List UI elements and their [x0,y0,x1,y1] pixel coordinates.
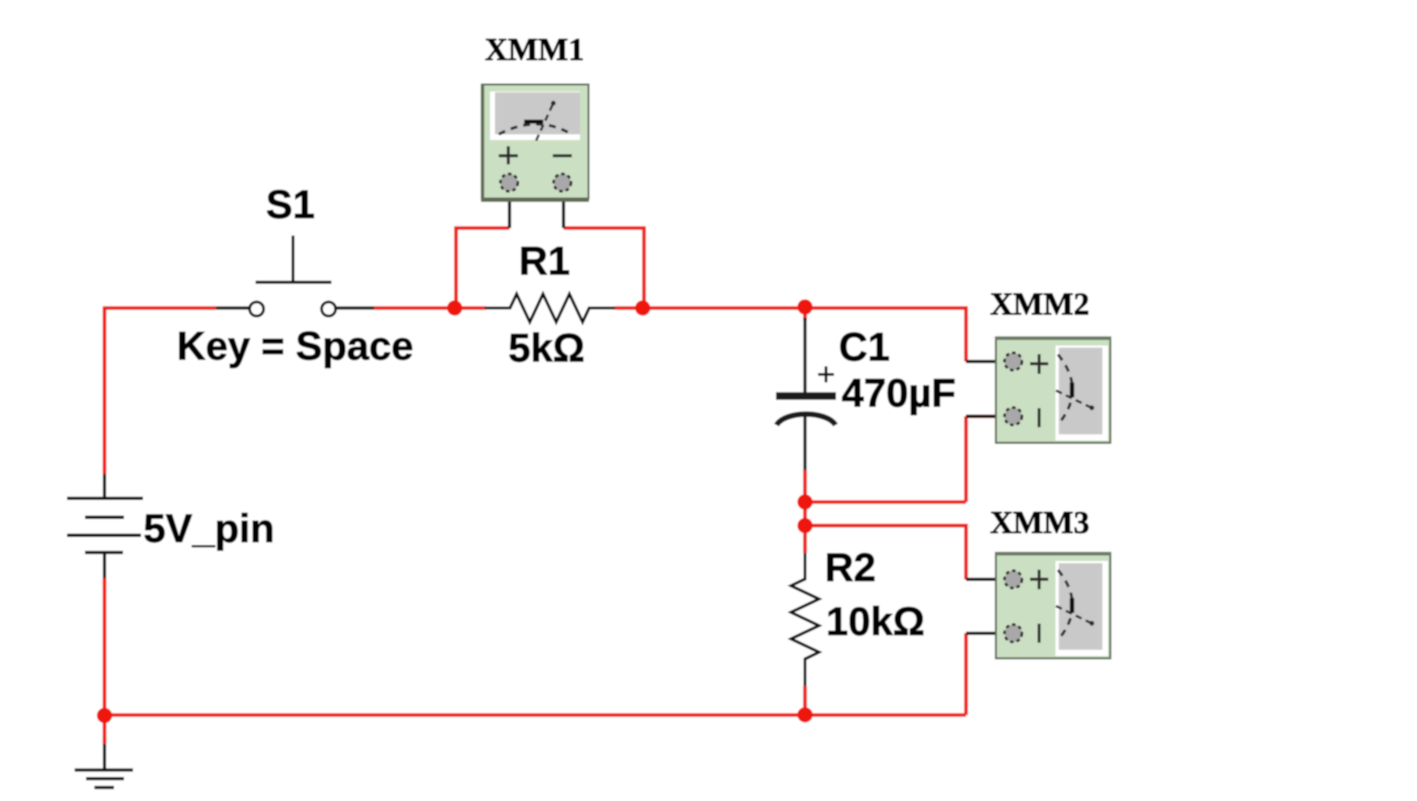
multimeter XMM1 [481,84,589,200]
svg-text:5V_pin: 5V_pin [143,507,274,551]
ground [75,744,133,788]
svg-text:S1: S1 [266,183,315,227]
multimeter XMM3 [996,553,1112,658]
wire: R2 top node to XMM3 plus [805,526,966,580]
wire: XMM2 minus black stub [966,415,1013,418]
wire: C1 black top [803,318,806,393]
svg-text:XMM2: XMM2 [990,286,1090,322]
wire: XMM1 left loop [456,228,510,308]
wire: XMM2 minus return down-left [805,416,1013,502]
capacitor C1 [776,366,836,425]
node: R1 left junction [447,300,462,315]
svg-text:XMM1: XMM1 [485,31,585,67]
wire: C1 bottom red to node [803,470,807,502]
wire: XMM3 plus black stub [966,578,1013,581]
wire: XMM3 minus black stub [966,632,1013,635]
node: R2 bottom junction [797,707,812,722]
wire: switch right to R1 left node [374,306,456,310]
switch S1 [216,236,374,317]
node: R2 top junction [797,518,812,533]
svg-text:Key = Space: Key = Space [177,325,414,369]
svg-text:XMM3: XMM3 [990,504,1090,540]
wire: XMM1 right loop [564,228,645,308]
svg-text:R1: R1 [519,240,570,284]
wire: R2 top red lead [803,526,807,553]
resistor R1 [485,294,615,322]
wire: top-left horizontal to switch left stub [103,306,216,310]
svg-text:C1: C1 [839,325,890,369]
wire: ground stub red [103,715,107,744]
wire: XMM1 minus black drop [562,183,565,228]
wire: left vertical from top-left corner down to battery top [103,307,107,475]
resistor R2 [791,553,819,686]
wire: R1 right node to C1 top node [643,306,805,310]
wire: node C1-bottom to node R2-top [803,502,807,526]
wire: R1 right red lead to node [615,306,643,310]
svg-text:R2: R2 [825,546,876,590]
svg-text:10kΩ: 10kΩ [826,600,925,644]
wire: R1 left node red lead [455,306,486,310]
wire: C1 top node to XMM2 plus corner [805,308,966,362]
wire: R2 bottom red lead [803,686,807,715]
wire: battery bottom to ground node [103,578,107,716]
node: ground junction [97,708,112,723]
wire: C1 black bottom [803,413,806,471]
multimeter XMM2 [996,337,1112,442]
battery V1 5V_pin [67,474,143,578]
wire: bottom horizontal [105,713,967,717]
wire: XMM2 plus black stub [966,360,1013,363]
svg-text:470µF: 470µF [842,372,956,416]
svg-text:5kΩ: 5kΩ [508,326,585,370]
wire: C1 top red stub [803,306,807,320]
node: C1 top junction [797,299,812,314]
wire: XMM1 plus black drop [508,183,511,228]
node: R1 right junction [635,300,650,315]
wire: XMM3 minus return to bottom [964,633,968,715]
node: C1 bottom junction [797,494,812,509]
